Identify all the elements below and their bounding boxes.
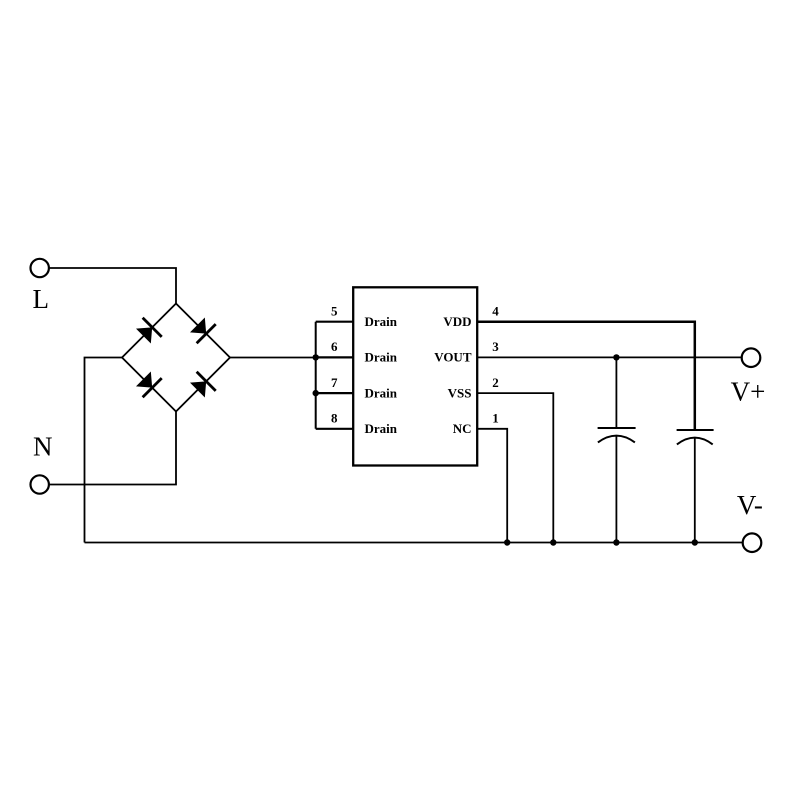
svg-text:6: 6 <box>331 339 338 354</box>
junction dot VSS/rail <box>550 539 556 545</box>
wire N to bridge bottom vertex <box>49 412 176 485</box>
bridge rectifier diamond outline <box>122 304 230 412</box>
svg-text:Drain: Drain <box>365 314 398 329</box>
junction dot C2/rail <box>692 539 698 545</box>
svg-text:Drain: Drain <box>365 385 398 400</box>
pin 5 stub <box>316 321 354 323</box>
pin 7 stub <box>316 392 354 394</box>
V- rail <box>85 542 743 544</box>
capacitor C2 top plate <box>677 429 714 431</box>
wire pin2 VSS down to rail <box>477 393 553 542</box>
svg-text:8: 8 <box>331 411 338 426</box>
diode D1 top-left <box>134 318 162 346</box>
terminal L <box>31 259 49 277</box>
svg-text:3: 3 <box>492 339 499 354</box>
svg-text:V+: V+ <box>731 377 766 407</box>
junction dot C1/rail <box>613 539 619 545</box>
terminal V- <box>743 533 762 552</box>
pin 6 stub <box>316 356 354 358</box>
capacitor C1 top plate <box>598 427 636 429</box>
wire L to bridge top vertex <box>49 268 176 304</box>
svg-text:2: 2 <box>492 375 499 390</box>
pin 8 stub <box>316 428 354 430</box>
wire C1 upper lead <box>615 357 617 428</box>
svg-text:4: 4 <box>492 303 499 318</box>
capacitor C2 curved plate <box>677 438 713 445</box>
svg-text:NC: NC <box>453 421 472 436</box>
diode D4 bottom-right <box>188 372 216 400</box>
svg-text:7: 7 <box>331 375 338 390</box>
svg-text:VSS: VSS <box>448 385 472 400</box>
capacitor C1 curved plate <box>598 436 635 443</box>
wire bridge right vertex to pin bus <box>230 357 316 359</box>
junction dot VOUT/C1 <box>613 354 619 360</box>
terminal N <box>31 475 49 493</box>
IC U1 body <box>353 287 477 465</box>
junction dot bus/pin6 <box>313 354 319 360</box>
svg-text:1: 1 <box>492 411 499 426</box>
pin bus vertical (pins 5-8) <box>315 322 317 429</box>
svg-text:Drain: Drain <box>365 350 398 365</box>
wire C1 lower lead <box>615 436 617 542</box>
svg-text:N: N <box>33 432 53 462</box>
svg-text:5: 5 <box>331 303 338 318</box>
svg-text:VOUT: VOUT <box>434 350 472 365</box>
junction dot bus/pin7 <box>313 390 319 396</box>
wire pin3 VOUT to terminal V+ <box>477 356 742 358</box>
wire bridge left vertex down to V- rail <box>85 358 123 543</box>
svg-text:Drain: Drain <box>365 421 398 436</box>
wire pin4 VDD over to capacitor C2 <box>477 322 695 430</box>
svg-text:V-: V- <box>737 490 763 520</box>
wire pin1 NC down to rail <box>477 429 507 543</box>
diode D2 top-right <box>188 315 216 343</box>
diode D3 bottom-left <box>134 369 162 397</box>
svg-text:VDD: VDD <box>443 314 471 329</box>
wire C2 lower lead <box>694 438 696 542</box>
svg-text:L: L <box>33 284 50 314</box>
junction dot NC/rail <box>504 539 510 545</box>
terminal V+ <box>742 348 761 367</box>
